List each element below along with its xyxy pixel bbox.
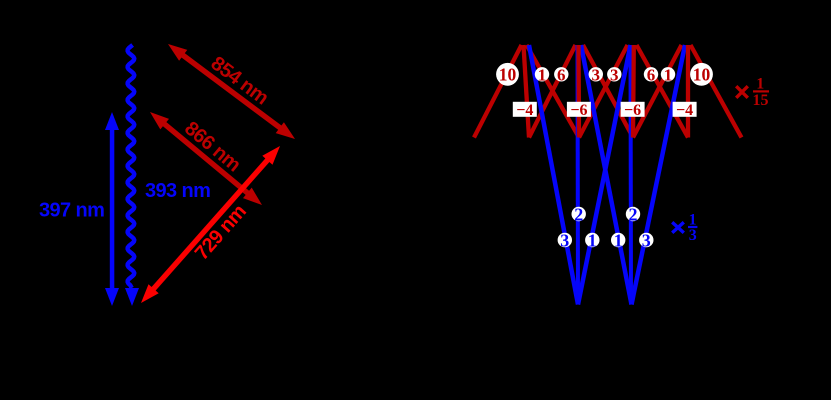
svg-text:3: 3 [560,230,569,250]
svg-text:6: 6 [647,65,656,84]
line m=+1/2 to m=+1/2 (pi) [629,45,634,305]
left diagram: Ca+ level scheme transitions [39,44,295,306]
854 nm double arrow (P3/2 - D5/2) [168,44,295,139]
svg-text:1: 1 [588,230,597,250]
red coefficient circle 3 [589,65,603,84]
393 nm spontaneous emission squiggle (P3/2 - S1/2) [128,45,135,288]
blue coefficient circle 2 [572,204,586,224]
red coefficient circle 6 [554,65,568,84]
svg-text:397 nm: 397 nm [39,200,104,222]
svg-text:1: 1 [664,65,673,84]
svg-text:−6: −6 [624,102,641,119]
svg-text:−4: −4 [516,102,533,119]
line m=+3/2 to m=+1/2 [633,45,682,138]
svg-text:15: 15 [753,92,769,109]
blue multiplier x 1/3 [672,212,697,244]
red coefficient box -6b [621,102,645,119]
svg-text:3: 3 [689,227,697,244]
393 squiggle arrowhead [125,288,139,306]
line m=-3/2 to m=-1/2 [527,45,580,138]
729 nm quadrupole double arrow (S1/2 - D5/2) [141,146,280,303]
line m=+3/2 to m=+5/2 [691,45,742,138]
red coefficient circle 1b [661,65,675,84]
red multiplier x 1/15 [736,76,769,109]
blue coefficient circle 3 [558,230,572,250]
dark red sigma decay lines P3/2 -> D5/2 [474,45,742,138]
line m=-1/2 to m=-1/2 (pi) [576,45,581,305]
svg-text:10: 10 [499,65,517,85]
red coefficient box -6 [567,102,591,119]
line m=+3/2 to m=+3/2 (pi) [686,45,690,138]
line m=-1/2 to m=+1/2 [583,45,633,138]
right diagram: Clebsch-Gordan branching [474,45,769,305]
red coefficient circle 3b [607,65,621,84]
line m=-3/2 to m=-5/2 [474,45,522,138]
line m=-3/2 to m=-1/2 [529,45,578,305]
line m=-3/2 to m=-3/2 (pi) [524,45,530,138]
svg-text:2: 2 [629,204,638,224]
svg-text:3: 3 [592,65,601,84]
svg-text:10: 10 [693,65,711,85]
blue coefficient circle 3b [639,230,653,250]
red coefficient circle 10 [496,63,519,86]
blue coefficient circle 2b [626,204,640,224]
svg-text:1: 1 [614,230,623,250]
red coefficient circle 1 [535,65,549,84]
red coefficient circle 6b [644,65,658,84]
blue coefficient circle 1 [585,230,599,250]
397 nm pump transition double arrow (S1/2 - P1/2) [105,112,119,306]
svg-text:3: 3 [642,230,651,250]
svg-text:1: 1 [538,65,547,84]
svg-text:1: 1 [756,76,764,93]
866 nm double arrow (P1/2 - D3/2) [150,112,262,205]
svg-text:3: 3 [610,65,619,84]
line m=+1/2 to m=+3/2 [637,45,689,138]
line m=+1/2 to m=-1/2 [578,45,631,305]
svg-text:−4: −4 [676,102,693,119]
line m=+3/2 to m=+1/2 [632,45,686,305]
svg-text:−6: −6 [570,102,587,119]
blue decay lines P3/2 -> S1/2 [529,45,685,305]
red coefficient box -4b [673,102,697,119]
blue coefficient circle 1b [611,230,625,250]
red coefficient circle 10b [690,63,713,86]
svg-text:2: 2 [574,204,583,224]
red coefficient box -4 [513,102,537,119]
svg-text:6: 6 [557,65,566,84]
line m=-1/2 to m=-1/2 (pi) [576,45,581,138]
line m=+1/2 to m=-1/2 [579,45,628,138]
line m=+1/2 to m=+1/2 (pi) [631,45,636,138]
line m=-1/2 to m=-3/2 [529,45,576,138]
dark red pi decay lines P3/2 -> D5/2 [524,45,689,138]
svg-text:393 nm: 393 nm [145,180,210,202]
line m=-1/2 to m=+1/2 [581,45,632,305]
